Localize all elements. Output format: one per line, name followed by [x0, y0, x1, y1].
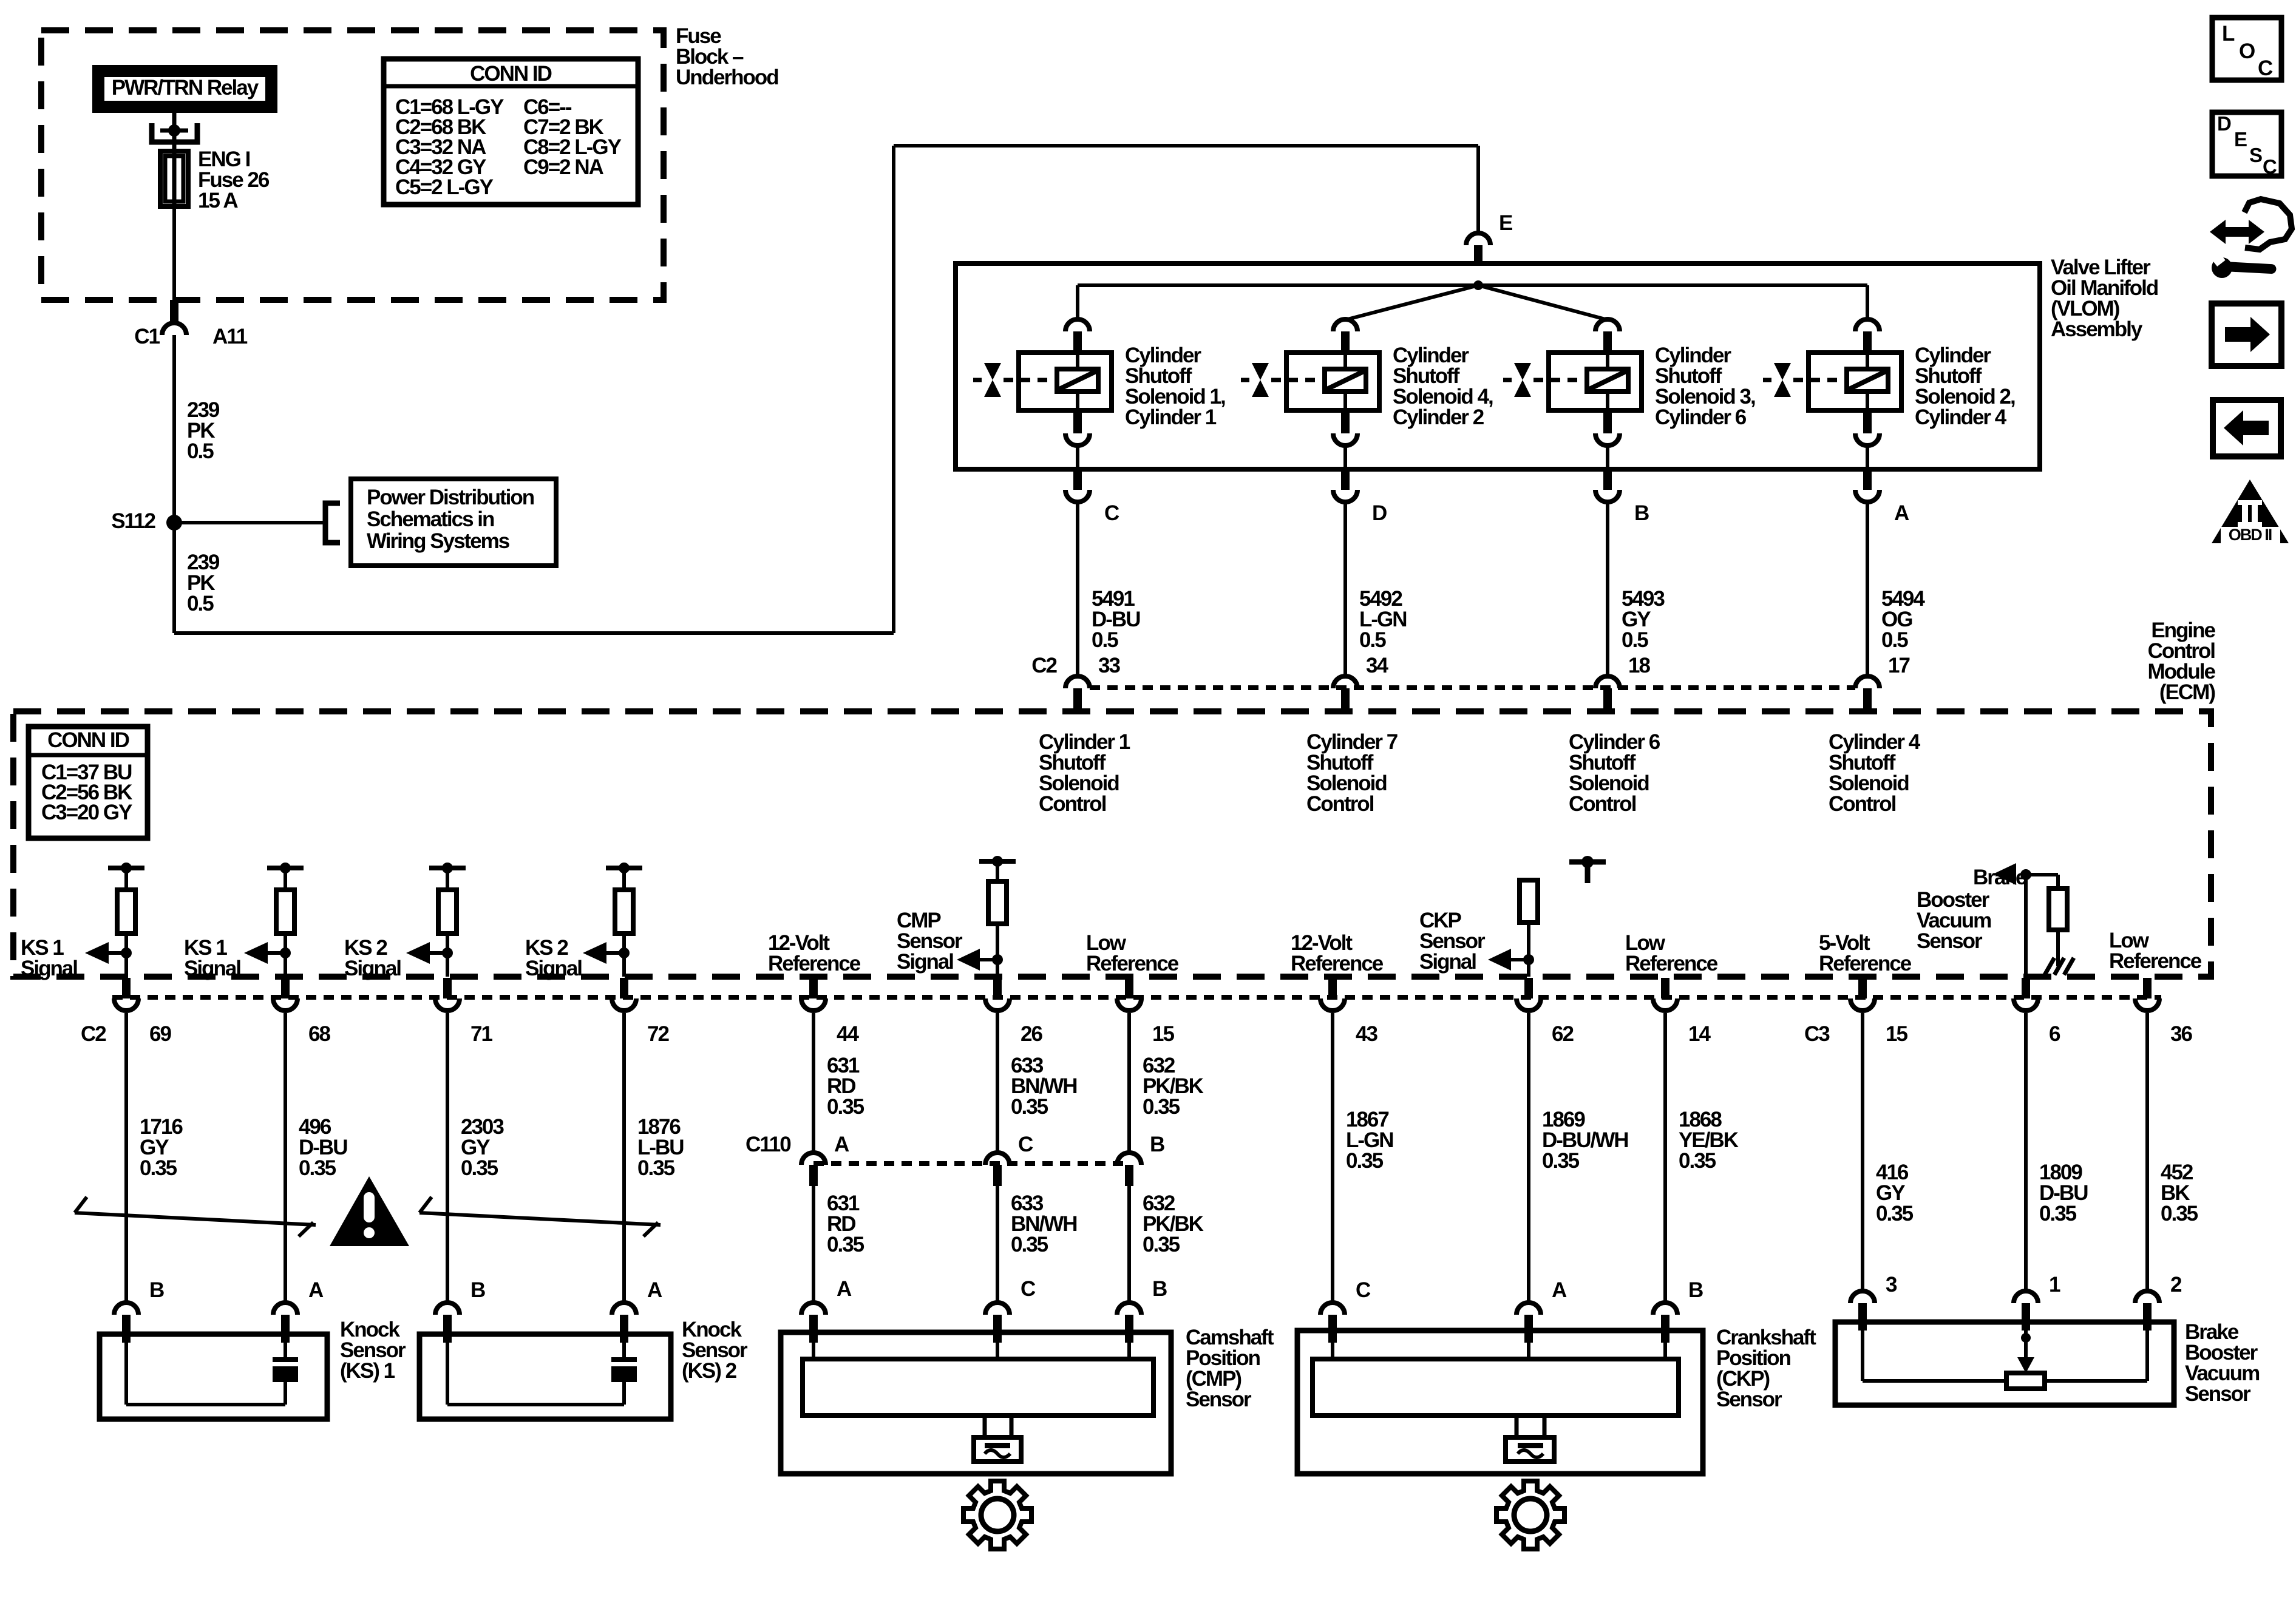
valve lifter oil manifold (VLOM) assembly box [956, 263, 2040, 469]
svg-text:1: 1 [2049, 1273, 2060, 1297]
solenoid: cylinder shutoff solenoid 1 [973, 319, 1112, 468]
svg-text:14: 14 [1688, 1022, 1711, 1046]
svg-text:0.35: 0.35 [299, 1156, 336, 1180]
relay terminal connector (bracket, bar, junction dot) [152, 113, 197, 153]
svg-text:17: 17 [1888, 654, 1909, 677]
resistor CKP sensor signal branch [1488, 880, 1538, 977]
wire 633 BN/WH 0.35 (C110 to CMP sensor) [997, 1186, 1077, 1301]
svg-text:68: 68 [308, 1022, 330, 1046]
svg-text:Sensor: Sensor [1716, 1388, 1782, 1411]
svg-text:6: 6 [2049, 1022, 2060, 1046]
crankshaft position (CKP) sensor [1297, 1278, 1703, 1474]
reference: Power Distribution Schematics in Wiring Systems [174, 479, 556, 566]
svg-text:15: 15 [1152, 1022, 1174, 1046]
wire 631 RD 0.35 (ECM to C110) [813, 1013, 864, 1152]
wire 1716 GY 0.35 (knock sensor) [126, 1013, 183, 1301]
resistor brake booster vacuum sensor branch [1993, 863, 2067, 978]
connector E [1466, 211, 1512, 265]
svg-text:C: C [1104, 501, 1119, 525]
solenoid: cylinder shutoff solenoid 3 [1503, 319, 1642, 468]
svg-text:CONN ID: CONN ID [47, 728, 129, 752]
svg-text:0.35: 0.35 [1679, 1149, 1716, 1173]
VLOM internal supply bus [1078, 285, 1867, 320]
svg-text:Sensor: Sensor [2185, 1382, 2251, 1406]
svg-text:43: 43 [1356, 1022, 1377, 1046]
svg-text:Signal: Signal [1419, 950, 1476, 974]
svg-text:Schematics in: Schematics in [367, 507, 494, 531]
svg-text:OBD II: OBD II [2229, 526, 2272, 544]
svg-text:71: 71 [470, 1022, 492, 1046]
off-page arrow (harness) left [75, 1197, 316, 1236]
labels ECM bottom pin numbers [81, 1022, 2192, 1046]
icon wrench with double arrow [2210, 199, 2292, 278]
wire 1868 YE/BK 0.35 (ECM to CKP sensor) [1665, 1013, 1739, 1301]
svg-text:36: 36 [2170, 1022, 2192, 1046]
svg-text:C3=20 GY: C3=20 GY [41, 801, 132, 824]
svg-text:Control: Control [1829, 792, 1896, 816]
fuse block - underhood (dashed box) [41, 30, 664, 300]
svg-text:0.35: 0.35 [1011, 1095, 1048, 1119]
svg-text:0.35: 0.35 [1542, 1149, 1580, 1173]
ground (chassis) for brake booster branch [2045, 958, 2074, 975]
svg-text:B: B [149, 1278, 164, 1302]
wire 5491 D-BU 0.5 [1078, 503, 1140, 675]
wire 2303 GY 0.35 (knock sensor) [447, 1013, 504, 1301]
svg-text:Reference: Reference [1625, 952, 1718, 975]
svg-text:C2: C2 [81, 1022, 106, 1046]
svg-text:15: 15 [1886, 1022, 1907, 1046]
svg-text:34: 34 [1366, 654, 1388, 677]
resistor KS 2 signal branch [406, 863, 466, 977]
svg-text:Control: Control [1039, 792, 1106, 816]
svg-text:0.5: 0.5 [187, 592, 214, 615]
svg-text:Signal: Signal [344, 957, 401, 980]
connector A (VLOM bottom) [1855, 471, 1909, 525]
connector B (VLOM bottom) [1595, 471, 1649, 525]
svg-text:26: 26 [1021, 1022, 1042, 1046]
svg-text:Reference: Reference [768, 952, 861, 975]
svg-text:B: B [1688, 1278, 1703, 1302]
svg-text:3: 3 [1886, 1273, 1897, 1297]
svg-text:Cylinder 4: Cylinder 4 [1915, 405, 2007, 429]
connector C (VLOM bottom) [1065, 471, 1119, 525]
gear icon (camshaft) [963, 1481, 1031, 1549]
svg-text:B: B [1152, 1277, 1167, 1301]
svg-text:A: A [834, 1133, 849, 1156]
icon DESC [2212, 112, 2281, 178]
wire 496 D-BU 0.35 (knock sensor) [285, 1013, 347, 1301]
svg-text:0.35: 0.35 [1143, 1233, 1180, 1256]
icon arrow left [2213, 400, 2281, 456]
splice S112 [111, 509, 182, 533]
svg-text:0.35: 0.35 [827, 1233, 864, 1256]
relay PWR/TRN Relay [98, 71, 271, 107]
svg-text:L: L [2222, 22, 2235, 46]
wire 631 RD 0.35 (C110 to CMP sensor) [813, 1186, 864, 1301]
warning symbol (exclamation triangle) [330, 1176, 409, 1246]
svg-text:Wiring Systems: Wiring Systems [367, 529, 510, 553]
svg-text:0.5: 0.5 [1881, 628, 1908, 652]
svg-text:0.35: 0.35 [1876, 1202, 1914, 1225]
svg-text:72: 72 [647, 1022, 669, 1046]
svg-text:C: C [2263, 155, 2277, 178]
knock sensor (KS) 1 [100, 1278, 327, 1419]
wire 632 PK/BK 0.35 (ECM to C110) [1129, 1013, 1204, 1152]
svg-text:A: A [1552, 1278, 1567, 1302]
svg-text:(ECM): (ECM) [2159, 680, 2215, 704]
svg-text:C: C [2258, 56, 2273, 80]
off-page arrow (harness) right [419, 1197, 661, 1236]
svg-text:S112: S112 [111, 509, 155, 533]
node E junction [1473, 280, 1483, 290]
wire 5493 GY 0.5 [1608, 503, 1665, 675]
svg-text:D: D [2217, 112, 2231, 135]
svg-text:15 A: 15 A [198, 189, 238, 212]
svg-text:0.35: 0.35 [1011, 1233, 1048, 1256]
svg-text:Sensor: Sensor [1917, 929, 1983, 953]
solenoid: cylinder shutoff solenoid 4 [1241, 319, 1379, 468]
svg-text:Signal: Signal [525, 957, 582, 980]
wire 1809 D-BU 0.35 (ECM to brake booster vacuum sensor) [2026, 1013, 2088, 1290]
connector C110 [746, 1133, 1164, 1186]
svg-text:0.35: 0.35 [1143, 1095, 1180, 1119]
wire 5494 OG 0.5 [1867, 503, 1925, 675]
wire 1867 L-GN 0.35 (ECM to CKP sensor) [1333, 1013, 1393, 1301]
label Brake Booster Vacuum Sensor [1917, 866, 2027, 953]
svg-text:Underhood: Underhood [676, 66, 778, 89]
wire 239 PK 0.5 (C1 to S112) [174, 335, 220, 523]
svg-text:33: 33 [1098, 654, 1120, 677]
wire 1869 D-BU/WH 0.35 (ECM to CKP sensor) [1529, 1013, 1628, 1301]
wire 5492 L-GN 0.5 [1345, 503, 1407, 675]
resistor KS 2 signal branch [583, 863, 642, 977]
table CONN ID (fuse block) [384, 59, 638, 205]
knock sensor (KS) 2 [419, 1278, 671, 1419]
icon OBD II triangle [2212, 480, 2289, 544]
svg-text:C: C [1021, 1277, 1036, 1301]
svg-text:0.5: 0.5 [1622, 628, 1648, 652]
svg-text:Control: Control [1306, 792, 1374, 816]
svg-text:C5=2 L-GY: C5=2 L-GY [395, 175, 494, 199]
svg-text:69: 69 [149, 1022, 171, 1046]
svg-text:Sensor: Sensor [1186, 1388, 1252, 1411]
svg-text:B: B [470, 1278, 485, 1302]
solenoid: cylinder shutoff solenoid 2 [1763, 319, 1901, 468]
svg-text:Reference: Reference [1291, 952, 1384, 975]
svg-text:C1: C1 [134, 325, 160, 348]
svg-text:O: O [2239, 39, 2255, 63]
svg-text:0.5: 0.5 [187, 439, 214, 463]
svg-text:Reference: Reference [1819, 952, 1912, 975]
svg-text:Reference: Reference [1086, 952, 1179, 975]
svg-text:CONN ID: CONN ID [470, 62, 552, 86]
svg-text:C110: C110 [746, 1133, 791, 1156]
resistor CMP sensor signal branch [957, 856, 1016, 977]
svg-text:0.5: 0.5 [1359, 628, 1386, 652]
terminal stub above pin 62 [1569, 856, 1606, 883]
svg-text:A: A [308, 1278, 324, 1302]
svg-text:0.35: 0.35 [140, 1156, 177, 1180]
ECM bottom connector row (C2/C3 pins) [112, 978, 2161, 1011]
svg-text:Assembly: Assembly [2051, 317, 2143, 341]
svg-text:C: C [1356, 1278, 1371, 1302]
svg-text:0.5: 0.5 [1092, 628, 1118, 652]
wire fuse to connector C1 [172, 206, 176, 300]
wire 1876 L-BU 0.35 (knock sensor) [624, 1013, 684, 1301]
wire 633 BN/WH 0.35 (ECM to C110) [997, 1013, 1077, 1152]
svg-text:0.35: 0.35 [827, 1095, 864, 1119]
camshaft position (CMP) sensor [781, 1277, 1171, 1474]
svg-text:0.35: 0.35 [637, 1156, 675, 1180]
wire 452 BK 0.35 (ECM to brake booster vacuum sensor) [2147, 1013, 2198, 1290]
svg-text:44: 44 [837, 1022, 859, 1046]
wire 632 PK/BK 0.35 (C110 to CMP sensor) [1129, 1186, 1204, 1301]
gear icon (crankshaft) [1496, 1481, 1564, 1549]
svg-text:Power Distribution: Power Distribution [367, 486, 534, 509]
svg-text:0.35: 0.35 [2039, 1202, 2077, 1225]
table CONN ID (ECM) [29, 727, 148, 838]
svg-text:A: A [837, 1277, 852, 1301]
svg-text:C: C [1018, 1133, 1033, 1156]
svg-text:B: B [1150, 1133, 1164, 1156]
svg-text:C2: C2 [1031, 654, 1057, 677]
svg-text:A11: A11 [212, 325, 248, 348]
svg-text:Cylinder 1: Cylinder 1 [1125, 405, 1217, 429]
wire 416 GY 0.35 (ECM to brake booster vacuum sensor) [1863, 1013, 1914, 1290]
svg-text:PWR/TRN Relay: PWR/TRN Relay [112, 76, 259, 100]
svg-text:Cylinder 2: Cylinder 2 [1393, 405, 1484, 429]
svg-text:Control: Control [1569, 792, 1636, 816]
ECM connector C2 row (pins 33 34 18 17) [1031, 654, 1909, 710]
resistor KS 1 signal branch [244, 863, 304, 977]
svg-text:A: A [1894, 501, 1909, 525]
svg-text:C9=2 NA: C9=2 NA [523, 155, 604, 179]
svg-text:Signal: Signal [184, 957, 240, 980]
wire 239 PK 0.5 (S112 to VLOM node E) [174, 146, 1478, 633]
svg-text:S: S [2249, 144, 2262, 166]
resistor KS 1 signal branch [85, 863, 144, 977]
icon LOC [2212, 18, 2281, 80]
connector C1 pin A11 [134, 300, 248, 348]
engine control module (ECM) dashed box [13, 711, 2211, 977]
svg-text:62: 62 [1552, 1022, 1574, 1046]
svg-text:18: 18 [1628, 654, 1650, 677]
fuse ENG I Fuse 26 15 A [160, 147, 270, 212]
svg-text:E: E [1499, 211, 1512, 235]
svg-text:A: A [647, 1278, 662, 1302]
svg-text:Cylinder 6: Cylinder 6 [1655, 405, 1747, 429]
svg-text:(KS) 2: (KS) 2 [682, 1359, 737, 1383]
svg-text:0.35: 0.35 [1346, 1149, 1384, 1173]
svg-text:Signal: Signal [897, 950, 953, 974]
svg-text:E: E [2234, 128, 2247, 151]
icon arrow right [2212, 303, 2281, 366]
svg-text:C3: C3 [1804, 1022, 1830, 1046]
svg-text:0.35: 0.35 [2161, 1202, 2198, 1225]
svg-text:Signal: Signal [21, 957, 77, 980]
svg-text:D: D [1372, 501, 1387, 525]
svg-text:B: B [1634, 501, 1649, 525]
svg-text:(KS) 1: (KS) 1 [340, 1359, 395, 1383]
connector D (VLOM bottom) [1333, 471, 1387, 525]
svg-text:2: 2 [2170, 1273, 2182, 1297]
brake booster vacuum sensor [1835, 1273, 2182, 1405]
svg-text:Brake: Brake [1973, 866, 2027, 889]
svg-text:0.35: 0.35 [461, 1156, 498, 1180]
svg-text:Reference: Reference [2109, 949, 2202, 973]
